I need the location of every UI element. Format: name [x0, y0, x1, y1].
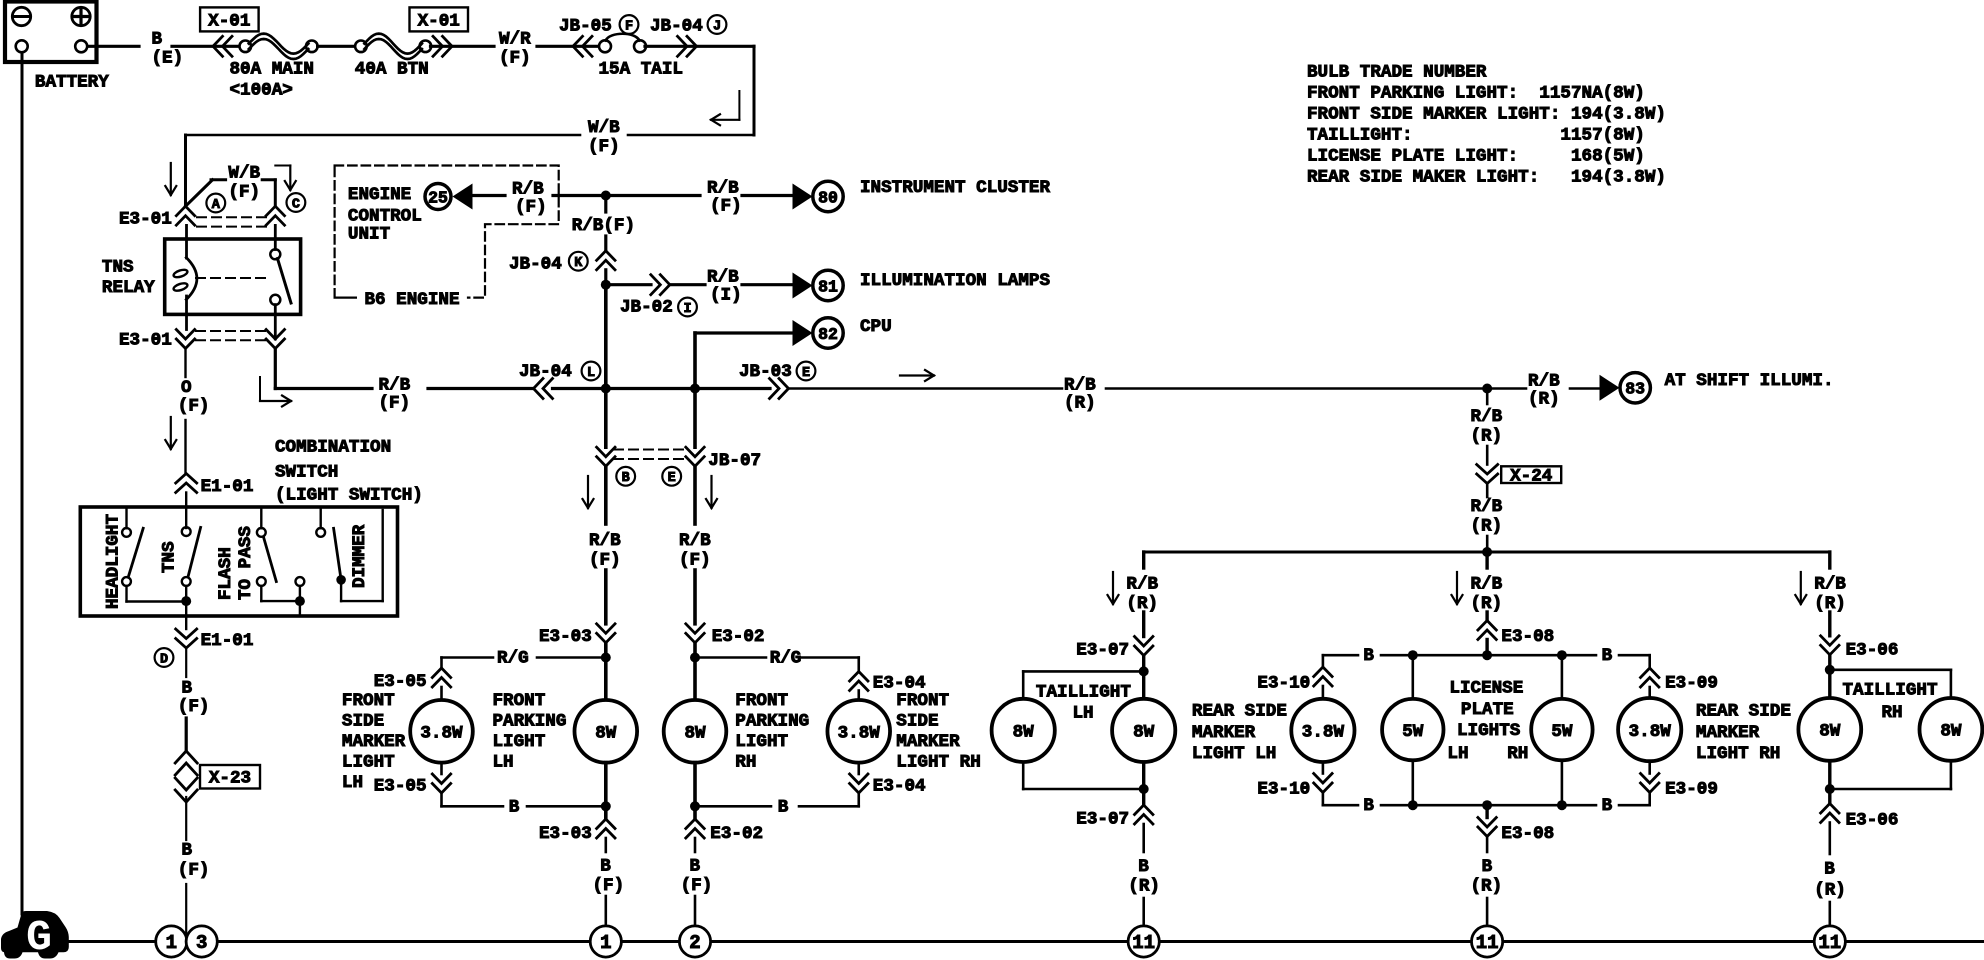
junction block JB-04 L [534, 379, 544, 399]
ground point 11 taillight LH [1128, 926, 1159, 957]
svg-text:SIDE: SIDE [342, 711, 384, 731]
wire W/B (F) horizontal [186, 134, 581, 137]
svg-text:MARKER: MARKER [1696, 723, 1760, 743]
svg-text:R/G: R/G [497, 649, 529, 669]
svg-text:3.8W: 3.8W [420, 724, 463, 744]
wire to X-24 [1486, 446, 1489, 465]
svg-text:B: B [600, 856, 611, 876]
svg-text:JB-04: JB-04 [509, 255, 562, 275]
arrow annotation E drop [710, 476, 712, 508]
connector E3-04 upper [850, 672, 868, 682]
svg-text:(F): (F) [681, 876, 713, 896]
wire taillight LH left branch [1023, 670, 1143, 673]
wire R/G RH [695, 656, 766, 659]
svg-text:E3-04: E3-04 [873, 777, 926, 797]
junction block JB-04 exit J [678, 36, 688, 56]
wire rear feed vertical from main run [1486, 389, 1489, 405]
bulb license plate LH 5W [1382, 699, 1443, 760]
svg-text:R/G: R/G [770, 649, 802, 669]
svg-text:RELAY: RELAY [102, 278, 155, 298]
connector pin D [155, 648, 174, 667]
connector E1-01 upper [176, 474, 197, 484]
wire diagonal link at E3-01 A [186, 180, 213, 206]
svg-text:B: B [622, 471, 630, 486]
wire below side marker LH [440, 763, 443, 774]
svg-text:LICENSE PLATE LIGHT: 168(5: LICENSE PLATE LIGHT: 168(5W) [1307, 147, 1645, 167]
wire B (R) taillight RH to ground [1829, 823, 1832, 855]
svg-text:(R): (R) [1814, 881, 1846, 901]
arrow connector 80 INSTRUMENT CLUSTER [793, 184, 813, 210]
wire main R/B (F) run [275, 387, 372, 390]
wire R/B (F) drop RH [693, 466, 697, 524]
wire to rear marker RH bulb [1648, 687, 1651, 699]
svg-text:E3-07: E3-07 [1076, 641, 1129, 661]
svg-text:80A MAIN: 80A MAIN [230, 60, 314, 80]
wire corner down to E3-04 [857, 658, 860, 672]
svg-text:TNS: TNS [160, 541, 180, 573]
svg-text:B: B [1824, 860, 1835, 880]
arrow annotation taillight RH [1800, 572, 1802, 604]
svg-text:(F): (F) [679, 551, 711, 571]
svg-text:PARKING: PARKING [735, 711, 809, 731]
wire B link RH [857, 793, 860, 806]
switch dimmer contact [320, 507, 322, 528]
svg-text:B: B [778, 797, 789, 817]
connector E3-08 upper [1478, 621, 1496, 631]
svg-text:E3-05: E3-05 [374, 672, 427, 692]
wire CPU branch [695, 331, 794, 334]
svg-text:11: 11 [1818, 932, 1841, 954]
wire drop to JB-07 E [693, 389, 697, 448]
wire B (F) below switch [185, 648, 187, 677]
arrow annotation hook at C [275, 165, 290, 167]
wire rear marker RH link from bus [1648, 655, 1651, 668]
wire to E3-08 lower [1485, 805, 1488, 817]
ground point 1 left [156, 926, 187, 957]
svg-text:E3-08: E3-08 [1501, 627, 1554, 647]
node license center top [1482, 650, 1492, 660]
svg-text:8W: 8W [684, 724, 706, 744]
node front parking RH drop [690, 384, 700, 394]
bulb rear side marker RH 3.8W [1618, 698, 1681, 761]
svg-text:TNS: TNS [102, 258, 134, 278]
svg-text:(R): (R) [1471, 594, 1503, 614]
svg-text:C: C [292, 197, 300, 212]
svg-text:(F): (F) [228, 183, 260, 203]
wire rear distribution bus [1144, 551, 1830, 554]
svg-text:LH: LH [342, 773, 363, 793]
svg-text:JB-07: JB-07 [708, 451, 761, 471]
svg-text:E1-01: E1-01 [201, 631, 254, 651]
bulb front parking RH 8W [664, 700, 727, 763]
wire down to JB-04 K [604, 236, 607, 251]
node taillight LH bottom [1139, 784, 1149, 794]
svg-text:HEADLIGHT: HEADLIGHT [104, 514, 124, 609]
wire to E3-06 lower [1828, 789, 1831, 804]
connector E3-05 lower [432, 774, 450, 784]
node license left top [1408, 650, 1418, 660]
svg-text:LIGHT: LIGHT [493, 732, 546, 752]
junction block JB-03 E [770, 379, 780, 399]
svg-text:F: F [625, 19, 633, 34]
svg-text:<100A>: <100A> [230, 81, 293, 101]
connector E3-03 lower [597, 819, 615, 829]
node license left bottom [1408, 800, 1418, 810]
connector E3-05 upper [432, 668, 450, 678]
svg-text:8W: 8W [1819, 722, 1841, 742]
svg-text:80: 80 [818, 188, 838, 207]
svg-text:R/B: R/B [707, 268, 739, 288]
svg-text:J: J [713, 19, 721, 34]
svg-text:E3-02: E3-02 [710, 824, 763, 844]
ground point 11 taillight RH [1814, 926, 1845, 957]
node LH B tap [601, 801, 611, 811]
node LH R/G tap [601, 653, 611, 663]
svg-text:(R): (R) [1471, 877, 1503, 897]
svg-text:B: B [690, 856, 701, 876]
svg-text:25: 25 [428, 188, 448, 207]
relay switch contact [274, 225, 277, 249]
wire R/B (I) to lamps arrow [670, 283, 705, 286]
wire to side marker bulb RH [857, 691, 860, 701]
svg-text:81: 81 [818, 277, 838, 296]
svg-text:R/B: R/B [1814, 575, 1846, 595]
node RH B tap [690, 801, 700, 811]
svg-text:TAILLIGHT: 1157(8: TAILLIGHT: 1157(8W) [1307, 126, 1645, 146]
node flash-to-pass junction [295, 596, 305, 606]
svg-text:W/R: W/R [499, 29, 531, 49]
connector E3-07 lower [1135, 805, 1153, 815]
connector 25 ECU pin [425, 184, 451, 210]
svg-text:B: B [1363, 646, 1374, 666]
bulb front parking LH 8W [575, 700, 638, 763]
svg-text:PLATE: PLATE [1461, 700, 1514, 720]
svg-text:B: B [1363, 796, 1374, 816]
wire taillight LH bottoms [1022, 762, 1025, 789]
svg-text:E3-09: E3-09 [1665, 674, 1718, 694]
svg-text:TAILLIGHT: TAILLIGHT [1036, 682, 1131, 702]
svg-text:E3-06: E3-06 [1846, 810, 1899, 830]
svg-text:8W: 8W [1013, 723, 1035, 743]
svg-text:E3-01: E3-01 [119, 331, 172, 351]
svg-text:8W: 8W [1133, 723, 1155, 743]
wire into combination switch [185, 493, 187, 529]
wire to rear distribution bus [1486, 484, 1489, 498]
svg-text:(R): (R) [1471, 517, 1503, 537]
connector E3-06 lower [1821, 804, 1839, 814]
wire O (F) below E3-01 [184, 349, 186, 378]
svg-text:E3-08: E3-08 [1501, 824, 1554, 844]
wire W/B vertical drop [753, 46, 756, 135]
svg-text:E3-03: E3-03 [539, 627, 592, 647]
svg-text:R/B: R/B [1471, 407, 1503, 427]
svg-text:1: 1 [166, 932, 177, 954]
svg-text:B: B [182, 841, 193, 861]
wire corner down to E3-05 [440, 658, 443, 669]
wire below LH bulb [604, 763, 608, 807]
wire down from illumination node to main run [604, 285, 608, 389]
svg-text:W/B: W/B [228, 164, 260, 184]
wire to E3-02 lower [693, 806, 697, 819]
svg-text:5W: 5W [1551, 722, 1573, 742]
switch headlight contact [125, 507, 127, 528]
svg-text:JB-03: JB-03 [739, 362, 792, 382]
svg-text:K: K [574, 256, 583, 271]
battery B1 [5, 2, 97, 63]
svg-text:FRONT: FRONT [735, 691, 788, 711]
svg-text:CPU: CPU [860, 317, 892, 337]
svg-text:AT SHIFT ILLUMI.: AT SHIFT ILLUMI. [1665, 371, 1834, 391]
node license right bottom [1557, 800, 1567, 810]
wire O (F) to E1-01 [184, 420, 186, 474]
connector E3-02 lower [686, 819, 704, 829]
connector E3-08 lower [1478, 818, 1496, 828]
svg-text:E3-01: E3-01 [119, 210, 172, 230]
svg-text:(R): (R) [1814, 594, 1846, 614]
bulb taillight RH outer 8W [1920, 698, 1983, 761]
svg-text:(F): (F) [710, 197, 742, 217]
svg-text:BULB TRADE NUMBER: BULB TRADE NUMBER [1307, 63, 1487, 83]
wire below RH bulb [693, 763, 697, 807]
wire below rear marker RH [1648, 761, 1651, 773]
svg-text:X-01: X-01 [208, 12, 250, 32]
svg-text:E1-01: E1-01 [201, 477, 254, 497]
svg-text:LIGHTS: LIGHTS [1457, 721, 1521, 741]
svg-text:JB-04: JB-04 [519, 362, 572, 382]
svg-text:(R): (R) [1471, 427, 1503, 447]
svg-text:FRONT SIDE MARKER LIGHT: 194(3: FRONT SIDE MARKER LIGHT: 194(3.8W) [1307, 105, 1666, 125]
svg-text:MARKER: MARKER [896, 732, 960, 752]
wire taillight RH right branch [1830, 668, 1951, 671]
wire W/R (F) [431, 45, 495, 48]
arrow annotation above E1-01 [170, 417, 172, 449]
wire B (R) taillight LH to ground [1142, 824, 1145, 852]
svg-text:X-24: X-24 [1510, 467, 1553, 487]
svg-text:(R): (R) [1064, 394, 1096, 414]
ground point 2 front RH [679, 926, 710, 957]
svg-text:E: E [668, 471, 676, 486]
svg-text:(F): (F) [178, 861, 210, 881]
wire to LH lamp node [604, 643, 608, 658]
svg-text:X-23: X-23 [209, 769, 251, 789]
svg-text:11: 11 [1476, 932, 1499, 954]
connector X-23 [175, 751, 197, 763]
relay coil [185, 225, 188, 258]
svg-text:(R): (R) [1126, 594, 1158, 614]
wire to taillight RH node [1828, 655, 1831, 670]
svg-text:ENGINE: ENGINE [348, 185, 411, 205]
svg-text:PARKING: PARKING [493, 711, 567, 731]
connector E3-02 upper [686, 624, 704, 634]
connector E3-09 lower [1641, 774, 1659, 784]
svg-text:O: O [181, 378, 192, 398]
svg-text:SIDE: SIDE [896, 711, 938, 731]
wire to X-23 [185, 718, 188, 751]
svg-text:CONTROL: CONTROL [348, 207, 422, 227]
connector E3-07 upper [1135, 637, 1153, 647]
wire taillight RH drop [1828, 552, 1831, 568]
wire battery negative to ground [21, 53, 24, 914]
svg-text:(F): (F) [593, 876, 625, 896]
wire taillight LH drop [1142, 552, 1145, 568]
connector E3-10 lower [1314, 774, 1332, 784]
svg-text:E3-10: E3-10 [1257, 674, 1310, 694]
svg-text:JB-02: JB-02 [620, 298, 673, 318]
wire main run center [553, 387, 771, 390]
svg-text:SWITCH: SWITCH [275, 463, 338, 483]
svg-text:(F): (F) [379, 394, 411, 414]
node taillight RH top [1825, 665, 1835, 675]
svg-text:R/B: R/B [1064, 376, 1096, 396]
svg-text:(R): (R) [1528, 390, 1560, 410]
wire license LH bulb drop [1412, 655, 1415, 700]
arrow annotation flow direction [900, 374, 934, 376]
svg-text:(R): (R) [1128, 877, 1160, 897]
connector E1-01 lower [176, 629, 197, 639]
svg-text:3.8W: 3.8W [1629, 722, 1672, 742]
bulb license plate RH 5W [1561, 655, 1564, 700]
svg-text:E3-10: E3-10 [1257, 780, 1310, 800]
svg-text:B: B [182, 679, 193, 699]
svg-text:BATTERY: BATTERY [35, 73, 109, 93]
svg-text:COMBINATION: COMBINATION [275, 438, 391, 458]
svg-text:2: 2 [689, 932, 700, 954]
ground body icon G [1, 911, 69, 959]
wire between fuses [318, 45, 356, 48]
svg-text:B: B [152, 29, 163, 49]
arrow connector 82 CPU [793, 320, 813, 346]
switch flash-to-pass contact [260, 507, 262, 528]
svg-text:5W: 5W [1402, 722, 1424, 742]
svg-text:R/B: R/B [1471, 575, 1503, 595]
wire drop to JB-07 B [604, 389, 608, 448]
ground point 1 front LH [590, 926, 621, 957]
svg-text:MARKER: MARKER [1192, 723, 1256, 743]
switch TNS contact [182, 527, 191, 536]
svg-text:R/B: R/B [512, 180, 544, 200]
wire rear marker LH top link [1322, 655, 1325, 667]
wire main run right [789, 387, 1063, 390]
node license center bottom [1482, 800, 1492, 810]
svg-text:INSTRUMENT CLUSTER: INSTRUMENT CLUSTER [860, 178, 1050, 198]
svg-text:E3-05: E3-05 [374, 777, 427, 797]
switch box combination switch [80, 507, 397, 616]
svg-text:REAR SIDE MAKER LIGHT: 194(3: REAR SIDE MAKER LIGHT: 194(3.8W) [1307, 168, 1666, 188]
arrow annotation taillight LH [1112, 572, 1114, 604]
connector E3-03 upper [597, 624, 615, 634]
svg-text:MARKER: MARKER [342, 732, 406, 752]
node RH R/G tap [690, 653, 700, 663]
svg-text:E3-07: E3-07 [1076, 810, 1129, 830]
junction block JB-04 K [597, 251, 615, 260]
svg-text:11: 11 [1132, 932, 1155, 954]
svg-text:FRONT: FRONT [342, 691, 395, 711]
svg-text:LH: LH [493, 752, 514, 772]
node instrument branch [601, 191, 611, 201]
svg-text:FRONT: FRONT [896, 691, 949, 711]
svg-text:FLASH: FLASH [216, 547, 236, 600]
svg-text:RH: RH [1507, 744, 1528, 764]
svg-text:REAR SIDE: REAR SIDE [1192, 702, 1287, 722]
svg-text:E3-09: E3-09 [1665, 780, 1718, 800]
bulb taillight LH outer 8W [992, 699, 1055, 762]
bulb front side marker LH 3.8W [410, 700, 473, 763]
svg-text:E3-06: E3-06 [1846, 641, 1899, 661]
wire B link LH [440, 793, 443, 806]
bulb taillight LH inner 8W [1142, 671, 1145, 699]
svg-text:3.8W: 3.8W [1302, 723, 1345, 743]
connector X-01 fuse block entry [213, 36, 223, 56]
svg-text:X-01: X-01 [418, 12, 460, 32]
arrow annotation license drop [1456, 572, 1458, 604]
svg-text:TAILLIGHT: TAILLIGHT [1843, 681, 1938, 701]
svg-text:UNIT: UNIT [348, 225, 391, 245]
wire to illumination branch node [604, 270, 607, 285]
ground bus [67, 940, 156, 943]
node license right top [1557, 650, 1567, 660]
svg-text:15A TAIL: 15A TAIL [599, 60, 683, 80]
wire combination switch output [185, 616, 187, 629]
svg-text:(F): (F) [589, 551, 621, 571]
svg-text:LIGHT: LIGHT [735, 732, 788, 752]
wire W/B down to E3-01 [184, 135, 187, 206]
svg-text:LIGHT RH: LIGHT RH [896, 752, 980, 772]
wire main run to X-24 node [1106, 387, 1526, 390]
svg-text:(LIGHT SWITCH): (LIGHT SWITCH) [275, 486, 423, 506]
svg-text:R/B: R/B [589, 531, 621, 551]
wire below side marker RH [857, 763, 860, 774]
svg-text:B6 ENGINE: B6 ENGINE [365, 290, 460, 310]
svg-text:(F): (F) [178, 697, 210, 717]
relay TNS box [165, 239, 301, 314]
svg-text:LH: LH [1447, 744, 1468, 764]
svg-text:LIGHT RH: LIGHT RH [1696, 744, 1780, 764]
node rear center drop [1482, 547, 1492, 557]
connector E3-04 lower [850, 774, 868, 784]
node front parking LH drop [601, 384, 611, 394]
wire from E3-01 C to main R/B run [274, 349, 277, 389]
svg-text:FRONT: FRONT [493, 691, 546, 711]
wire to license bus [1485, 640, 1488, 656]
svg-text:A: A [212, 198, 221, 213]
arrow annotation right-turn below relay [259, 377, 261, 401]
svg-text:(E): (E) [152, 48, 184, 68]
wire B (F) LH to ground [604, 838, 607, 852]
wire to AT shift arrow [1570, 387, 1600, 390]
bulb front side marker RH 3.8W [827, 700, 890, 763]
fuse 40A BTN [355, 41, 367, 53]
wire to E3-03 lower [604, 806, 608, 819]
wire corner to E3-01 C [262, 178, 275, 181]
svg-text:B: B [1138, 857, 1149, 877]
svg-text:LH: LH [1073, 704, 1094, 724]
svg-text:FRONT PARKING LIGHT: 1157NA(8: FRONT PARKING LIGHT: 1157NA(8W) [1307, 84, 1645, 104]
relay coil-contact dashed link [196, 277, 268, 279]
node TNS output [181, 596, 191, 606]
wire R/B (F) drop LH [604, 466, 608, 524]
svg-text:E: E [802, 366, 810, 381]
svg-text:L: L [587, 366, 595, 381]
wire to rear marker LH bulb [1322, 686, 1325, 699]
arrow annotation at W/B corner [738, 91, 740, 120]
ground point 11 license [1472, 926, 1503, 957]
svg-text:83: 83 [1625, 380, 1645, 399]
node illumination branch [601, 280, 611, 290]
node X-24 branch junction [1482, 384, 1492, 394]
connector E3-09 upper [1641, 668, 1659, 678]
svg-text:3.8W: 3.8W [838, 724, 881, 744]
svg-text:JB-04: JB-04 [650, 17, 703, 37]
